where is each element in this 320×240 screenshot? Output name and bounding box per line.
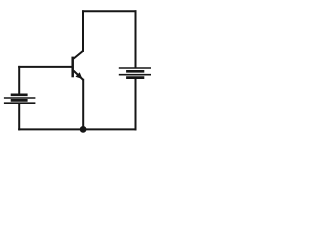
wire emitter vertical [82, 80, 84, 130]
transistor Q1 emitter lead [74, 71, 84, 80]
battery B1 long plate upper [4, 97, 36, 99]
transistor Q1 collector lead [74, 51, 84, 59]
node junction dot (emitter to bottom rail) [80, 126, 87, 133]
wire base (left rail to transistor base) [19, 66, 71, 68]
battery B2 long plate lower [119, 74, 151, 76]
transistor Q1 emitter arrowhead [76, 72, 83, 79]
wire right rail lower [135, 79, 137, 129]
wire bottom rail [19, 128, 135, 130]
wire left rail upper [18, 67, 20, 94]
battery B2 (right) [119, 68, 151, 78]
battery B1 short plate top [11, 93, 28, 96]
transistor Q1 [73, 51, 84, 80]
battery B1 short plate bottom [11, 99, 28, 102]
battery B1 (left) [4, 95, 36, 103]
transistor Q1 base bar [71, 57, 74, 78]
wire top (collector rail to right rail) [83, 10, 136, 12]
battery B2 long plate top [119, 67, 151, 69]
battery B2 short plate upper [126, 70, 144, 73]
wire collector vertical [82, 11, 84, 51]
wire left rail lower [18, 104, 20, 129]
wire right rail upper [135, 11, 137, 67]
battery B1 long plate lower [4, 102, 36, 104]
battery B2 short plate bottom [126, 76, 144, 79]
